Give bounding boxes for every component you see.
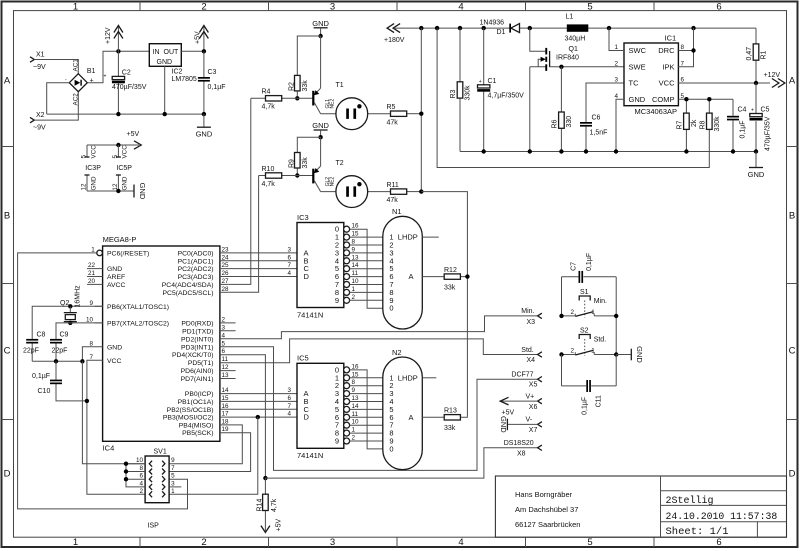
- inductor L1: [565, 14, 589, 43]
- svg-text:9: 9: [171, 457, 175, 464]
- svg-text:PB3(MOSI/OC2): PB3(MOSI/OC2): [163, 415, 214, 422]
- svg-text:47k: 47k: [387, 119, 399, 126]
- svg-text:4,7k: 4,7k: [271, 498, 278, 512]
- TITLE: [495, 476, 786, 538]
- svg-text:N2: N2: [392, 348, 402, 357]
- svg-text:Hans Borngräber: Hans Borngräber: [515, 490, 573, 499]
- wire IC2 out: [181, 50, 204, 52]
- svg-text:AC1: AC1: [73, 59, 80, 72]
- svg-text:PB4(MISO): PB4(MISO): [179, 422, 214, 429]
- wire pin9 net: [32, 306, 102, 339]
- wire +180V bus: [395, 27, 756, 29]
- svg-text:6: 6: [139, 473, 143, 480]
- svg-text:IC5: IC5: [297, 354, 309, 363]
- supply +5V arrow down at R14: [261, 519, 283, 533]
- svg-text:4: 4: [287, 411, 291, 418]
- wire PB0-PB3 to IC5 inputs: [220, 394, 297, 418]
- svg-text:2: 2: [571, 348, 575, 355]
- svg-text:12: 12: [222, 364, 230, 371]
- svg-text:X8: X8: [517, 451, 526, 458]
- svg-text:GND: GND: [499, 416, 508, 433]
- svg-text:C2: C2: [122, 70, 131, 77]
- svg-text:7: 7: [89, 354, 93, 361]
- capacitor C7: [562, 253, 617, 283]
- svg-text:8: 8: [352, 379, 356, 386]
- MCU IC4 MEGA8-P: [103, 246, 220, 441]
- right side texts: [162, 250, 214, 437]
- svg-text:15: 15: [222, 395, 230, 402]
- svg-text:340µH: 340µH: [565, 36, 586, 43]
- svg-text:L1: L1: [566, 14, 574, 21]
- svg-text:~9V: ~9V: [33, 64, 46, 71]
- svg-text:22pF: 22pF: [52, 347, 68, 354]
- wire SV1 gnd column: [126, 464, 145, 487]
- svg-text:GND: GND: [748, 170, 765, 179]
- column labels bottom: [73, 537, 722, 548]
- svg-text:7: 7: [171, 465, 175, 472]
- ground symbol above T2: [312, 121, 329, 137]
- nixie tube N2: [383, 348, 423, 470]
- svg-text:X5: X5: [529, 381, 538, 388]
- IC5P power pin GND: [112, 175, 129, 191]
- svg-text:26: 26: [222, 270, 230, 277]
- IC5 output bubbles: [344, 367, 350, 444]
- svg-text:PC0(ADC0): PC0(ADC0): [178, 250, 214, 257]
- svg-text:D: D: [304, 413, 310, 422]
- svg-text:PD5(T1): PD5(T1): [188, 360, 214, 367]
- svg-text:9: 9: [89, 300, 93, 307]
- svg-text:OUT: OUT: [164, 49, 180, 56]
- node +12V junction: [116, 49, 120, 53]
- svg-text:PB1(OC1A): PB1(OC1A): [178, 399, 214, 406]
- svg-text:16: 16: [352, 363, 360, 370]
- wire pin10 net: [56, 323, 103, 339]
- node bus junctions: [419, 26, 423, 30]
- svg-text:0,1µF: 0,1µF: [32, 373, 50, 380]
- svg-text:1N4936: 1N4936: [480, 19, 505, 26]
- svg-text:0: 0: [389, 304, 393, 313]
- neon lamp GL2: [336, 176, 368, 208]
- supply +5V arrow at X6: [500, 397, 537, 416]
- svg-text:A: A: [789, 76, 796, 87]
- supply +180V arrow: [384, 24, 405, 44]
- svg-text:PC5(ADC5/SCL): PC5(ADC5/SCL): [163, 290, 214, 297]
- svg-text:C8: C8: [37, 331, 46, 338]
- wire X1 to bridge: [34, 60, 78, 74]
- wire PD3 to X8: [220, 347, 538, 471]
- svg-text:MC34063AP: MC34063AP: [635, 107, 678, 116]
- svg-text:GND: GND: [312, 19, 329, 28]
- svg-text:6: 6: [287, 395, 291, 402]
- svg-text:14: 14: [352, 262, 360, 269]
- svg-text:X6: X6: [529, 404, 538, 411]
- svg-text:28: 28: [222, 286, 230, 293]
- svg-text:21: 21: [88, 270, 96, 277]
- wire pin28 stub: [220, 291, 228, 293]
- svg-text:V+: V+: [526, 393, 535, 400]
- CONNECTORS: [257, 308, 542, 532]
- svg-text:8: 8: [139, 465, 143, 472]
- svg-text:PD0(RXD): PD0(RXD): [181, 320, 213, 327]
- IC5P power pin VCC: [112, 145, 129, 159]
- svg-text:Min.: Min.: [594, 298, 607, 305]
- wire PD5 to X4: [220, 339, 538, 363]
- row labels right: [789, 76, 796, 480]
- svg-text:3: 3: [287, 387, 291, 394]
- wire T1 collector to R5: [321, 113, 391, 115]
- svg-text:IC4: IC4: [103, 444, 115, 453]
- svg-text:9: 9: [335, 296, 339, 305]
- svg-text:1: 1: [352, 427, 356, 434]
- wire T2 collector to R11: [321, 191, 391, 193]
- svg-text:C11: C11: [596, 395, 603, 407]
- ground symbol right of S2: [616, 346, 644, 363]
- svg-text:27: 27: [222, 278, 230, 285]
- svg-text:PC4(ADC4/SDA): PC4(ADC4/SDA): [162, 282, 214, 289]
- svg-text:A: A: [409, 272, 414, 281]
- svg-text:B: B: [789, 211, 795, 222]
- svg-text:2: 2: [201, 2, 206, 13]
- IC5 74141N: [297, 363, 344, 448]
- column labels top: [73, 2, 722, 13]
- column tick marks top: [140, 2, 654, 11]
- svg-text:14: 14: [222, 387, 230, 394]
- connector X1: [30, 52, 46, 72]
- svg-text:GND: GND: [629, 95, 646, 104]
- svg-text:+12V: +12V: [105, 27, 112, 44]
- wire IC3 output0 to N1 pin0: [349, 229, 382, 308]
- svg-text:R5: R5: [387, 104, 396, 111]
- svg-text:330: 330: [566, 116, 573, 128]
- wires IC3 outputs to N1: [349, 237, 382, 300]
- svg-text:+12V: +12V: [764, 72, 781, 79]
- svg-text:MEGA8-P: MEGA8-P: [103, 235, 137, 244]
- svg-text:4: 4: [222, 332, 226, 339]
- svg-text:6: 6: [222, 348, 226, 355]
- pin 7 VCC: [87, 354, 145, 495]
- capacitor C9: [50, 331, 69, 361]
- svg-text:24.10.2010 11:57:38: 24.10.2010 11:57:38: [666, 511, 778, 522]
- svg-text:T1: T1: [336, 82, 344, 89]
- right pin numbers: [222, 246, 230, 433]
- svg-text:4,7µF/350V: 4,7µF/350V: [488, 92, 525, 99]
- svg-text:330k: 330k: [465, 85, 472, 101]
- svg-text:2k: 2k: [691, 119, 698, 127]
- svg-text:DRC: DRC: [658, 46, 675, 55]
- svg-text:0: 0: [389, 444, 393, 453]
- PSU: [30, 26, 226, 200]
- svg-text:+: +: [751, 108, 754, 114]
- capacitor C11: [562, 380, 617, 415]
- svg-text:20: 20: [88, 278, 96, 285]
- svg-text:R12: R12: [444, 267, 457, 274]
- wire PD2 to X3: [220, 316, 538, 339]
- svg-text:LM7805: LM7805: [172, 76, 197, 83]
- svg-text:C4: C4: [738, 107, 747, 114]
- wire R5/R11 anode feed vertical: [420, 28, 422, 192]
- svg-text:16MHz: 16MHz: [75, 285, 82, 308]
- svg-text:13: 13: [222, 372, 230, 379]
- connector X6 V+: [526, 393, 542, 410]
- transistor T1: [312, 36, 344, 114]
- svg-text:R13: R13: [444, 408, 457, 415]
- svg-text:IC3P: IC3P: [85, 165, 101, 172]
- svg-text:4,7k: 4,7k: [262, 104, 276, 111]
- svg-text:4: 4: [287, 270, 291, 277]
- svg-text:23: 23: [222, 246, 230, 253]
- svg-text:B1: B1: [87, 68, 96, 75]
- svg-text:2: 2: [201, 537, 206, 548]
- DRIVERS: [228, 19, 467, 417]
- row tick marks left: [2, 147, 14, 420]
- wire N1 LHDP stub: [422, 236, 439, 238]
- resistor R7: [676, 99, 698, 151]
- svg-text:16: 16: [222, 403, 230, 410]
- svg-text:T2: T2: [336, 160, 344, 167]
- connector X5 DCF77: [511, 372, 542, 389]
- IC3 output pin numbers: [352, 223, 360, 301]
- svg-text:5: 5: [587, 537, 592, 548]
- resistor R3: [450, 28, 472, 151]
- capacitor C4: [727, 99, 747, 151]
- svg-text:3: 3: [614, 77, 618, 84]
- svg-text:PB6(XTAL1/TOSC1): PB6(XTAL1/TOSC1): [107, 304, 169, 311]
- svg-text:9: 9: [352, 387, 356, 394]
- svg-text:C5: C5: [761, 107, 770, 114]
- wire feedback +180V to R8 bottom: [437, 28, 709, 167]
- neon lamp GL1: [336, 98, 368, 130]
- SWITCHES: [559, 253, 644, 415]
- svg-text:IRF840: IRF840: [556, 54, 579, 61]
- capacitor C5: [750, 83, 772, 152]
- wire +12V line: [678, 82, 770, 84]
- IC3P power pin VCC: [81, 145, 98, 159]
- svg-text:1,5nF: 1,5nF: [590, 129, 608, 136]
- svg-text:GND: GND: [138, 183, 147, 200]
- svg-text:R8: R8: [699, 120, 706, 129]
- connector X2: [30, 112, 46, 132]
- svg-text:GND: GND: [635, 346, 644, 363]
- svg-text:Q1: Q1: [569, 46, 578, 53]
- svg-text:VCC: VCC: [122, 145, 129, 159]
- pin 1 PC6(/RESET): [91, 246, 149, 257]
- resistor R5: [387, 104, 422, 126]
- pin 8 GND: [82, 340, 122, 361]
- svg-text:NE2: NE2: [330, 176, 336, 186]
- svg-text:22: 22: [88, 262, 96, 269]
- pin 9 PB6: [89, 300, 169, 311]
- supply +12V arrow: [105, 26, 123, 52]
- svg-text:4: 4: [458, 537, 463, 548]
- svg-text:C: C: [4, 346, 11, 357]
- svg-text:C9: C9: [60, 331, 69, 338]
- svg-text:10: 10: [352, 278, 360, 285]
- wire R10 to MCU pin28: [228, 176, 258, 293]
- resistor R6: [551, 67, 573, 152]
- svg-text:11: 11: [222, 356, 229, 363]
- svg-text:12: 12: [81, 183, 88, 191]
- IC1 MC34063AP: [614, 34, 684, 117]
- wire R11 node to anode resistors vertical: [421, 192, 467, 417]
- ground symbol rotated: [134, 183, 147, 200]
- svg-text:13: 13: [352, 395, 360, 402]
- svg-text:15: 15: [352, 231, 360, 238]
- svg-text:4: 4: [458, 2, 463, 13]
- wire gnd bus to SV1: [82, 361, 145, 463]
- svg-text:C7: C7: [571, 262, 578, 271]
- switch S1: [562, 289, 617, 318]
- svg-text:33k: 33k: [302, 80, 309, 92]
- crystal Q2: [60, 285, 82, 323]
- svg-text:+5V: +5V: [127, 131, 140, 138]
- svg-text:C6: C6: [592, 114, 601, 121]
- svg-text:R9: R9: [289, 159, 296, 168]
- svg-text:66127 Saarbrücken: 66127 Saarbrücken: [515, 520, 580, 529]
- svg-text:R2: R2: [289, 82, 296, 91]
- svg-text:22pF: 22pF: [23, 347, 39, 354]
- svg-text:3: 3: [287, 246, 291, 253]
- svg-text:R6: R6: [551, 119, 558, 128]
- svg-text:PC2(ADC2): PC2(ADC2): [178, 266, 214, 273]
- IC3N1: [287, 207, 469, 329]
- svg-text:9: 9: [352, 246, 356, 253]
- wire X3 left vertical: [561, 355, 563, 386]
- IC3P power pin GND: [81, 175, 98, 191]
- wire X2 to bridge: [34, 92, 78, 120]
- svg-text:D: D: [4, 469, 11, 480]
- capacitor C8: [23, 331, 46, 361]
- wire gnd pins join: [87, 190, 134, 192]
- svg-text:R4: R4: [262, 89, 271, 96]
- svg-text:PD6(AIN0): PD6(AIN0): [181, 368, 214, 375]
- svg-text:S1: S1: [580, 289, 589, 296]
- MCU: [18, 235, 538, 530]
- wire PB4 to SV1 pin9: [169, 425, 242, 464]
- wire PB3 to SV1 pin1: [169, 417, 258, 494]
- resistor R1: [746, 28, 768, 83]
- svg-text:X1: X1: [36, 52, 45, 59]
- svg-text:X3: X3: [527, 319, 536, 326]
- svg-text:11: 11: [352, 270, 359, 277]
- node R14 top junction: [263, 476, 267, 480]
- svg-text:GND: GND: [312, 121, 329, 130]
- pin 10 PB7: [86, 316, 169, 327]
- wire IC2 gnd pin: [164, 66, 166, 114]
- wire IC1 pin1 SWC to L1 node: [609, 28, 624, 50]
- svg-text:IC2: IC2: [172, 68, 183, 75]
- svg-text:Min.: Min.: [521, 308, 534, 315]
- connector X8 DS18S20: [504, 440, 542, 457]
- connector X3: [521, 308, 542, 326]
- node PB3 MOSI junction: [256, 415, 260, 419]
- svg-text:TC: TC: [629, 79, 640, 88]
- resistor R12: [422, 267, 467, 292]
- svg-text:4: 4: [139, 480, 143, 487]
- svg-text:8: 8: [89, 340, 93, 347]
- svg-text:X7: X7: [529, 427, 538, 434]
- svg-text:5: 5: [222, 340, 226, 347]
- svg-text:NE2: NE2: [330, 99, 336, 109]
- svg-text:5: 5: [112, 155, 119, 159]
- svg-text:Std.: Std.: [521, 347, 534, 354]
- svg-text:GND: GND: [157, 59, 173, 66]
- svg-text:+: +: [90, 78, 94, 85]
- svg-text:IN: IN: [153, 49, 160, 56]
- wire IC5 output0 to N2 pin0: [349, 370, 382, 449]
- svg-text:5: 5: [171, 473, 175, 480]
- svg-text:13: 13: [352, 254, 360, 261]
- resistor R2: [289, 36, 321, 98]
- svg-text:470µF/35V: 470µF/35V: [112, 84, 147, 91]
- IC5 output pin numbers: [352, 363, 360, 441]
- svg-text:PC3(ADC3): PC3(ADC3): [178, 274, 214, 281]
- capacitor C3: [198, 51, 226, 114]
- svg-text:1: 1: [591, 348, 595, 355]
- svg-text:Sheet: 1/1: Sheet: 1/1: [666, 526, 729, 538]
- svg-text:VCC: VCC: [659, 79, 675, 88]
- row labels left: [4, 76, 11, 480]
- voltage regulator IC2: [149, 44, 197, 83]
- wire SV1 pin3 stub: [169, 486, 181, 488]
- svg-text:19: 19: [222, 426, 230, 433]
- svg-text:IPK: IPK: [662, 62, 674, 71]
- wire PD4 to X5: [220, 355, 266, 478]
- svg-text:2: 2: [222, 316, 226, 323]
- header SV1: [136, 448, 175, 529]
- svg-text:15: 15: [352, 371, 360, 378]
- svg-text:A: A: [4, 76, 11, 87]
- svg-text:LHDP: LHDP: [398, 233, 418, 242]
- ground symbol under C3: [196, 114, 213, 139]
- svg-text:6: 6: [716, 537, 721, 548]
- svg-text:SWC: SWC: [629, 46, 647, 55]
- svg-text:+: +: [104, 74, 107, 80]
- svg-text:18: 18: [222, 418, 230, 425]
- svg-text:10: 10: [136, 457, 144, 464]
- svg-text:D: D: [789, 469, 796, 480]
- IC5N2: [287, 348, 467, 470]
- svg-text:1: 1: [352, 286, 356, 293]
- capacitor C10: [32, 361, 87, 401]
- svg-text:3: 3: [330, 2, 335, 13]
- capacitor C6: [580, 83, 624, 152]
- svg-text:0,47: 0,47: [746, 47, 753, 61]
- supply +12V arrow right: [764, 72, 785, 88]
- svg-text:0,1µF: 0,1µF: [740, 120, 747, 138]
- svg-text:PD7(AIN1): PD7(AIN1): [181, 376, 214, 383]
- svg-text:N1: N1: [392, 207, 402, 216]
- svg-text:ISP: ISP: [148, 523, 160, 530]
- column tick marks bottom: [140, 537, 654, 547]
- svg-text:PD3(INT1): PD3(INT1): [181, 344, 213, 351]
- svg-text:GND: GND: [122, 176, 129, 190]
- svg-text:2: 2: [352, 435, 356, 442]
- wire IC1 pin4 GND to rail: [616, 99, 624, 151]
- nixie tube N1: [383, 207, 423, 329]
- svg-text:PC6(/RESET): PC6(/RESET): [107, 250, 149, 257]
- svg-text:SWE: SWE: [629, 62, 646, 71]
- svg-text:+5V: +5V: [276, 519, 283, 532]
- svg-text:PC1(ADC1): PC1(ADC1): [178, 258, 214, 265]
- svg-text:47k: 47k: [387, 197, 399, 204]
- HV: [384, 14, 785, 192]
- svg-text:0,1µF: 0,1µF: [582, 397, 589, 415]
- svg-text:1: 1: [91, 246, 95, 253]
- svg-text:Q2: Q2: [60, 300, 69, 307]
- wire IC1 pin8 DRC + pin7 IPK to bus: [678, 28, 693, 67]
- svg-text:AREF: AREF: [107, 274, 125, 281]
- row tick marks right: [787, 147, 799, 420]
